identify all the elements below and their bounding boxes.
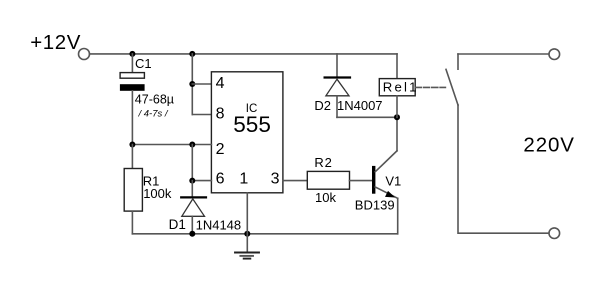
- label R1 value 100k: [143, 186, 172, 201]
- capacitor C1: [120, 73, 145, 91]
- label C1: [135, 56, 152, 71]
- svg-text:R2: R2: [314, 155, 332, 170]
- svg-text:6: 6: [216, 170, 225, 187]
- ground: [235, 234, 259, 259]
- svg-text:1: 1: [239, 170, 248, 187]
- node junction ground rail at D1: [189, 231, 195, 237]
- svg-text:+12V: +12V: [30, 31, 81, 54]
- node junction top rail at IC supply: [189, 51, 195, 57]
- svg-text:C1: C1: [135, 56, 152, 71]
- wire contact fixed stub: [457, 54, 459, 69]
- wire relay coil bottom lead: [396, 96, 398, 118]
- label IC: [246, 103, 257, 115]
- wire IC supply drop: [191, 54, 193, 115]
- label C1 time / 4-7s /: [138, 108, 169, 119]
- svg-text:Rel1: Rel1: [383, 79, 419, 94]
- svg-text:BD139: BD139: [355, 198, 395, 213]
- label D1: [169, 217, 186, 232]
- wire pin 4: [192, 83, 211, 85]
- label D2: [314, 98, 331, 113]
- wire dashed mechanical link Rel1 to contact: [415, 86, 445, 88]
- label pin 3: [271, 170, 280, 187]
- svg-text:220V: 220V: [523, 133, 574, 156]
- wire R2 to base: [350, 180, 373, 182]
- wire pin 1 to ground rail: [246, 193, 248, 234]
- label 555: [233, 112, 271, 137]
- wire contact top to terminal: [458, 53, 549, 55]
- label R2 value 10k: [315, 190, 336, 205]
- svg-text:10k: 10k: [315, 190, 336, 205]
- label Rel1: [383, 79, 419, 94]
- wire bottom ground rail: [132, 233, 397, 235]
- terminal +12V input: [79, 49, 90, 60]
- label R1: [143, 174, 160, 189]
- svg-text:1N4148: 1N4148: [196, 217, 242, 232]
- label pin 6: [216, 170, 225, 187]
- wire pin 3 to R2: [283, 180, 307, 182]
- label V1 type BD139: [355, 198, 395, 213]
- wire pin 6: [192, 180, 211, 182]
- svg-text:100k: 100k: [143, 186, 172, 201]
- svg-text:47-68µ: 47-68µ: [135, 93, 174, 107]
- svg-text:D1: D1: [169, 217, 186, 232]
- label pin 2: [216, 141, 225, 158]
- wire D1 top lead: [191, 181, 193, 197]
- wire C1 bottom lead to pin2 rail: [131, 91, 133, 145]
- node 220V label: [523, 133, 574, 156]
- relay coil Rel1: [379, 79, 415, 96]
- svg-text:/ 4-7s /: / 4-7s /: [138, 108, 169, 119]
- node junction ground rail at pin1: [244, 231, 250, 237]
- wire D2 bottom lead: [336, 96, 338, 118]
- wire pin 2 rail: [132, 144, 211, 146]
- svg-text:2: 2: [216, 141, 225, 158]
- terminal 220V top: [549, 49, 560, 60]
- wire pin 8: [192, 114, 211, 116]
- label pin 1: [239, 170, 248, 187]
- node junction relay/collector/D2: [394, 114, 400, 120]
- label R2: [314, 155, 332, 170]
- wire D1 bottom lead: [191, 216, 193, 234]
- node +12V label: [30, 31, 81, 54]
- label C1 value 47-68µ: [135, 93, 174, 107]
- wire D2 top lead: [336, 54, 338, 77]
- wire R1 bottom lead: [131, 211, 133, 234]
- svg-text:8: 8: [216, 105, 225, 122]
- resistor R1: [124, 169, 142, 212]
- node junction top rail at C1: [129, 51, 135, 57]
- wire C1 top lead: [131, 54, 133, 73]
- label V1: [385, 174, 401, 189]
- svg-text:D2: D2: [314, 98, 331, 113]
- diode D2: [325, 78, 350, 96]
- svg-text:1N4007: 1N4007: [337, 98, 383, 113]
- transistor V1: [374, 151, 398, 199]
- terminal 220V bottom: [549, 228, 560, 239]
- node junction pin4 branch: [189, 81, 195, 87]
- wire emitter to ground rail: [397, 198, 399, 234]
- svg-text:V1: V1: [385, 174, 401, 189]
- svg-text:555: 555: [233, 112, 271, 137]
- op-amp U1 : IC 555 body: [211, 72, 283, 193]
- label D1 value 1N4148: [196, 217, 242, 232]
- node junction pin2 at C1: [129, 142, 135, 148]
- wire contact bottom to terminal: [458, 105, 549, 233]
- node junction pin2 at D1 branch: [189, 142, 195, 148]
- node junction pin6 at D1: [189, 178, 195, 184]
- label D2 value 1N4007: [337, 98, 383, 113]
- label pin 4: [216, 75, 225, 92]
- wire relay coil top lead: [396, 54, 398, 79]
- wire pin2 to pin6 drop: [191, 145, 193, 181]
- diode D1: [181, 197, 206, 216]
- resistor R2: [307, 171, 349, 189]
- svg-text:3: 3: [271, 170, 280, 187]
- svg-text:4: 4: [216, 75, 225, 92]
- label pin 8: [216, 105, 225, 122]
- wire top supply rail: [90, 53, 397, 55]
- wire D2 to relay node: [337, 116, 397, 118]
- switch relay contact blade: [446, 69, 458, 105]
- wire collector to relay node: [396, 117, 398, 151]
- wire R1 top lead: [131, 145, 133, 169]
